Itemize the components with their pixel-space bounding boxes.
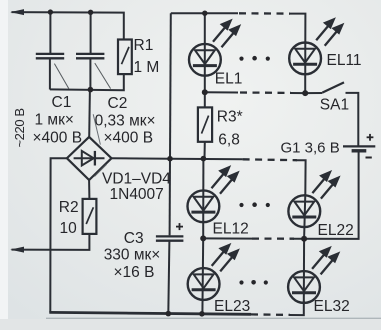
wire: C2 bottom [89, 58, 91, 89]
EL1 light emission arrows [213, 21, 239, 47]
wire: EL32 column [303, 239, 305, 302]
resistor R1 [118, 40, 132, 75]
wire: row1 top dashed [239, 12, 290, 15]
leader line C1 [54, 64, 68, 89]
wire: row1 top solid left [171, 12, 238, 14]
wire: row2 top left segment [170, 158, 243, 161]
EL12 light emission arrows [212, 167, 238, 193]
wire: bottom rail right corner up to EL32 [289, 301, 304, 315]
wire: bridge right vertex to plus node [112, 157, 171, 160]
scan edge line [46, 317, 381, 319]
leader line VD1-VD4 [95, 164, 107, 176]
wire: row1 top right corner to EL11 [289, 14, 305, 44]
wire: EL23 column [201, 238, 204, 313]
svg-text:R1: R1 [134, 37, 154, 54]
svg-text:6,8: 6,8 [218, 132, 240, 149]
wire: EL11 column [304, 42, 306, 93]
battery G1 [343, 146, 375, 150]
svg-text:C2: C2 [108, 95, 128, 112]
wire: bridge left vertex to minus rail [50, 158, 67, 312]
wire: plus rail up to LED row1 top [169, 13, 172, 159]
wire: EL1 column [204, 13, 206, 92]
ellipsis dots row3 [239, 280, 268, 285]
wire: row1 bottom right stub [290, 92, 305, 94]
battery plus sign [367, 134, 374, 141]
svg-text:EL12: EL12 [213, 221, 249, 238]
svg-text:C1: C1 [52, 94, 72, 111]
wire: C3 column lower to minus rail [168, 241, 169, 314]
wire: row2 bottom dashed [252, 237, 294, 239]
wire: row1 bottom dashed [240, 91, 291, 94]
svg-text:1 мк×: 1 мк× [35, 112, 74, 129]
switch SA1 blade [322, 82, 344, 92]
wire: C1 bottom [49, 58, 51, 89]
svg-text:EL32: EL32 [314, 298, 350, 315]
scan crease line [93, 114, 100, 144]
capacitor C2 plates [76, 54, 104, 58]
EL32 light emission arrows [312, 248, 338, 274]
wire: lower rail of RC ballast [50, 74, 124, 90]
LED EL32 [288, 271, 320, 303]
wire: feed to bridge top [88, 90, 91, 137]
EL22 light emission arrows [312, 172, 338, 198]
EL11 light emission arrows [316, 19, 342, 45]
node: EL11 bottom [302, 90, 308, 96]
node: EL23 bottom rail [199, 311, 205, 317]
wire: top AC rail left section [12, 12, 124, 39]
LED EL23 [188, 268, 220, 300]
svg-text:1N4007: 1N4007 [110, 186, 164, 203]
wire: EL12 column [202, 159, 204, 239]
wire: R3 top lead [204, 92, 206, 107]
svg-text:~220 В: ~220 В [12, 108, 27, 147]
node: C2 bottom [88, 87, 94, 93]
C3 plus sign [176, 223, 183, 230]
svg-text:×16 В: ×16 В [114, 264, 155, 281]
wire: C1 top drop [49, 12, 51, 53]
wire: C3 column upper [169, 159, 171, 236]
svg-text:×400 В: ×400 В [104, 130, 154, 147]
svg-text:10: 10 [60, 220, 78, 237]
ellipsis dots row1 [239, 56, 270, 61]
wire: SA1 left stub [305, 92, 322, 94]
LED EL12 [188, 190, 220, 222]
LED EL22 [288, 195, 320, 227]
wire: R2 bottom to AC arrow [12, 234, 90, 250]
wire: SA1 right stub [346, 93, 359, 146]
svg-text:C3: C3 [124, 230, 144, 247]
wire: C2 top drop [90, 12, 92, 53]
battery minus sign [366, 157, 372, 159]
node: R3 bottom row2 [201, 156, 207, 162]
svg-text:×400 В: ×400 В [33, 130, 83, 147]
svg-text:EL11: EL11 [327, 52, 362, 69]
svg-text:G1 3,6 В: G1 3,6 В [281, 140, 340, 157]
AC input arrow top [10, 9, 24, 15]
wire: bridge bottom to R2 [88, 180, 90, 199]
capacitor C1 plates [36, 54, 64, 58]
svg-text:EL23: EL23 [214, 298, 250, 315]
capacitor C3 (electrolytic) [156, 236, 184, 240]
bridge rectifier VD1-VD4 [67, 137, 112, 180]
wire: row2 top dashed [243, 158, 297, 161]
svg-text:EL22: EL22 [318, 222, 354, 239]
node: plus rail row2 [167, 156, 173, 162]
svg-text:SA1: SA1 [320, 97, 349, 114]
node: EL1 top [202, 11, 207, 16]
svg-text:EL1: EL1 [215, 71, 243, 88]
wire: row2 bottom left stub [203, 237, 252, 239]
svg-text:R3*: R3* [217, 109, 243, 126]
node: EL1 bottom [202, 89, 208, 95]
wire: row1 bottom solid stub [205, 91, 238, 93]
resistor R3 [198, 107, 212, 141]
wire: row2 top right corner to EL22 [296, 160, 306, 196]
leader line C2 [95, 63, 111, 89]
svg-text:R2: R2 [59, 199, 79, 216]
node: EL12 bottom [200, 235, 206, 241]
wire: bottom minus rail solid part [49, 312, 251, 314]
svg-text:0,33 мк×: 0,33 мк× [95, 113, 156, 130]
resistor R2 [83, 199, 97, 234]
node: EL22 bottom [301, 236, 307, 242]
LED EL11 [289, 43, 321, 75]
wire: row2 bottom right + battery rail up [293, 151, 359, 239]
ellipsis dots row2 [239, 202, 270, 207]
node: C3 bottom rail [166, 311, 172, 317]
node: C1 top [48, 9, 53, 14]
LED EL1 [189, 44, 221, 76]
svg-text:330 мк×: 330 мк× [104, 246, 161, 263]
wire: EL22 column [304, 194, 305, 239]
EL23 light emission arrows [212, 245, 238, 271]
wire: bottom rail dashed part [251, 313, 290, 316]
svg-text:1 M: 1 M [134, 59, 160, 76]
node: C2 top [88, 10, 93, 15]
AC input arrow bottom [10, 247, 24, 253]
wire: R3 bottom lead [204, 142, 206, 159]
